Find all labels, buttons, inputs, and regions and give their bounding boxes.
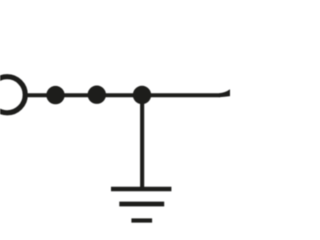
junction dot 2 bbox=[88, 86, 106, 104]
ground bar 3 (bottom, shortest) bbox=[131, 218, 152, 222]
ground bar 2 (middle) bbox=[119, 202, 164, 207]
terminal circle X1 (left connection point, clipped at left edge) bbox=[0, 77, 25, 113]
ground bar 1 (top, widest) bbox=[111, 187, 171, 192]
junction dot 3 (T-junction to ground) bbox=[133, 86, 151, 104]
junction dot 1 bbox=[46, 86, 64, 104]
wire (horizontal bus from terminal circle to right edge) bbox=[25, 93, 220, 97]
wire (vertical from junction dot 3 down to ground) bbox=[140, 95, 144, 189]
wire (upward curved end at right edge) bbox=[219, 89, 230, 97]
